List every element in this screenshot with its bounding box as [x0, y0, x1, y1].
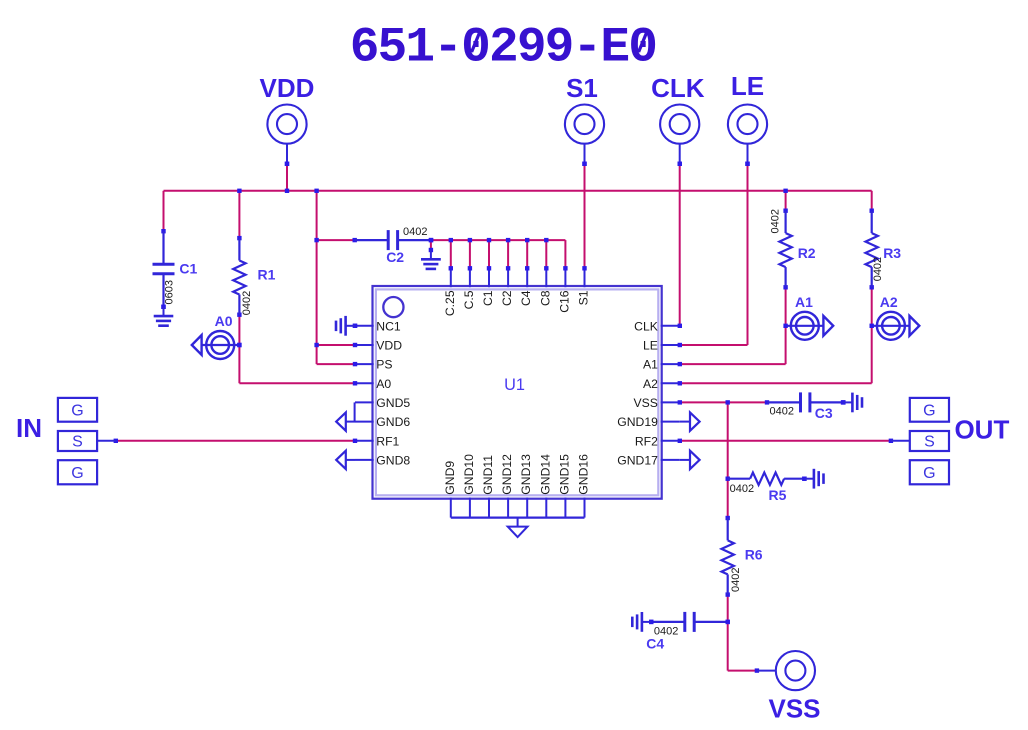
svg-text:S1: S1 — [577, 290, 591, 305]
svg-text:C8: C8 — [538, 290, 552, 306]
svg-text:651-0299-E0: 651-0299-E0 — [350, 19, 656, 75]
svg-text:GND5: GND5 — [376, 396, 410, 410]
svg-text:0603: 0603 — [164, 280, 176, 304]
svg-text:0402: 0402 — [730, 568, 742, 592]
svg-text:0402: 0402 — [770, 405, 794, 417]
svg-text:GND8: GND8 — [376, 454, 410, 468]
svg-text:G: G — [923, 465, 935, 482]
svg-text:GND10: GND10 — [462, 454, 476, 495]
svg-text:C2: C2 — [500, 290, 514, 306]
svg-text:GND15: GND15 — [557, 454, 571, 495]
svg-text:C2: C2 — [386, 249, 404, 265]
svg-text:GND19: GND19 — [617, 415, 658, 429]
svg-text:NC1: NC1 — [376, 319, 401, 333]
svg-text:0402: 0402 — [654, 625, 678, 637]
svg-text:C1: C1 — [179, 260, 197, 276]
svg-text:GND17: GND17 — [617, 454, 658, 468]
svg-text:C3: C3 — [815, 405, 833, 421]
svg-text:0402: 0402 — [730, 483, 754, 495]
svg-text:S: S — [72, 434, 83, 451]
svg-text:CLK: CLK — [651, 73, 705, 103]
svg-text:A0: A0 — [376, 377, 391, 391]
svg-text:0402: 0402 — [872, 257, 884, 281]
svg-text:OUT: OUT — [954, 414, 1009, 444]
svg-text:C1: C1 — [481, 290, 495, 306]
svg-text:GND13: GND13 — [519, 454, 533, 495]
svg-text:0402: 0402 — [769, 209, 781, 233]
svg-text:A2: A2 — [643, 377, 658, 391]
svg-text:R6: R6 — [745, 547, 763, 563]
svg-text:C.5: C.5 — [462, 290, 476, 309]
svg-text:GND12: GND12 — [500, 454, 514, 495]
svg-text:VSS: VSS — [768, 694, 820, 724]
svg-text:S: S — [924, 434, 935, 451]
svg-text:A0: A0 — [215, 313, 233, 329]
svg-text:VDD: VDD — [376, 339, 402, 353]
svg-text:C4: C4 — [646, 635, 664, 651]
svg-text:GND6: GND6 — [376, 415, 410, 429]
svg-text:PS: PS — [376, 358, 392, 372]
svg-text:R1: R1 — [258, 266, 276, 282]
svg-text:LE: LE — [731, 71, 764, 101]
svg-text:G: G — [71, 402, 83, 419]
svg-text:G: G — [923, 402, 935, 419]
svg-text:A2: A2 — [880, 294, 898, 310]
svg-text:G: G — [71, 465, 83, 482]
svg-text:0402: 0402 — [241, 291, 253, 315]
svg-text:GND9: GND9 — [443, 461, 457, 495]
svg-text:R2: R2 — [798, 245, 816, 261]
svg-text:GND14: GND14 — [538, 454, 552, 495]
svg-text:S1: S1 — [566, 73, 598, 103]
svg-text:VDD: VDD — [260, 73, 315, 103]
svg-text:GND11: GND11 — [481, 455, 495, 495]
svg-text:0402: 0402 — [403, 226, 427, 238]
svg-text:IN: IN — [16, 413, 42, 443]
svg-text:CLK: CLK — [634, 319, 658, 333]
svg-text:RF2: RF2 — [635, 434, 658, 448]
svg-text:R5: R5 — [769, 487, 787, 503]
svg-text:C.25: C.25 — [443, 290, 457, 316]
svg-text:C16: C16 — [557, 290, 571, 313]
svg-text:U1: U1 — [504, 376, 525, 394]
svg-text:A1: A1 — [795, 294, 813, 310]
svg-text:A1: A1 — [643, 358, 658, 372]
svg-text:C4: C4 — [519, 290, 533, 306]
svg-text:VSS: VSS — [634, 396, 658, 410]
svg-text:R3: R3 — [883, 245, 901, 261]
svg-text:RF1: RF1 — [376, 434, 399, 448]
svg-text:GND16: GND16 — [577, 454, 591, 495]
svg-text:LE: LE — [643, 339, 658, 353]
